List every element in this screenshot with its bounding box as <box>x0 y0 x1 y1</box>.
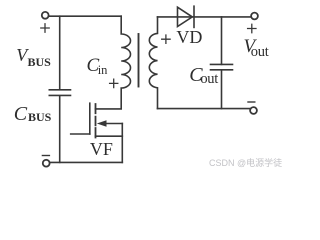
label Vout V <box>244 37 256 56</box>
wire top-left horizontal <box>49 15 121 17</box>
wire left rail lower <box>59 96 61 162</box>
wire left rail upper <box>59 16 61 89</box>
mosfet VF source wire down <box>121 124 123 163</box>
label Vout subscript out <box>251 45 269 60</box>
transformer primary winding (Cin) <box>96 16 131 109</box>
wire Cout bottom lead <box>221 70 223 109</box>
terminal top-left (+ V_BUS) <box>42 12 49 19</box>
transformer core <box>138 34 140 87</box>
plus sign secondary <box>162 35 170 43</box>
label VD <box>176 28 202 46</box>
label CBUS subscript BUS <box>28 111 51 123</box>
wire bottom-left rail <box>50 161 123 163</box>
label Cin subscript in <box>98 64 108 77</box>
minus sign bottom-right <box>248 101 255 103</box>
label VBUS V <box>16 46 27 64</box>
mosfet VF channel dashes <box>95 104 97 138</box>
diode VD cathode bar <box>193 6 195 27</box>
mosfet VF source stub <box>96 135 123 137</box>
diode VD triangle <box>178 7 193 26</box>
label VF <box>90 140 113 158</box>
plus sign V_out <box>248 24 256 32</box>
wire Cout top lead <box>221 17 223 65</box>
mosfet VF gate lead <box>71 133 90 135</box>
plus sign V_BUS <box>41 24 49 32</box>
label CBUS C <box>14 104 27 124</box>
capacitor CBUS <box>49 90 70 96</box>
terminal bottom-left (-) <box>43 160 50 167</box>
terminal top-right (+ V_out) <box>251 13 258 20</box>
transformer secondary winding <box>149 17 157 109</box>
terminal bottom-right (-) <box>250 107 257 114</box>
watermark CSDN <box>209 159 282 168</box>
minus sign bottom-left <box>42 155 49 157</box>
label Cin C <box>87 56 100 75</box>
wire bottom-right rail <box>158 108 251 110</box>
label Cout subscript out <box>200 72 217 87</box>
capacitor Cout <box>211 64 233 69</box>
plus sign primary <box>110 79 118 87</box>
label Cout C <box>189 65 202 85</box>
mosfet VF gate plate <box>89 103 91 134</box>
wire top-right horizontal <box>158 16 252 18</box>
label VBUS subscript BUS <box>28 56 51 68</box>
mosfet VF body arrow <box>105 123 123 125</box>
